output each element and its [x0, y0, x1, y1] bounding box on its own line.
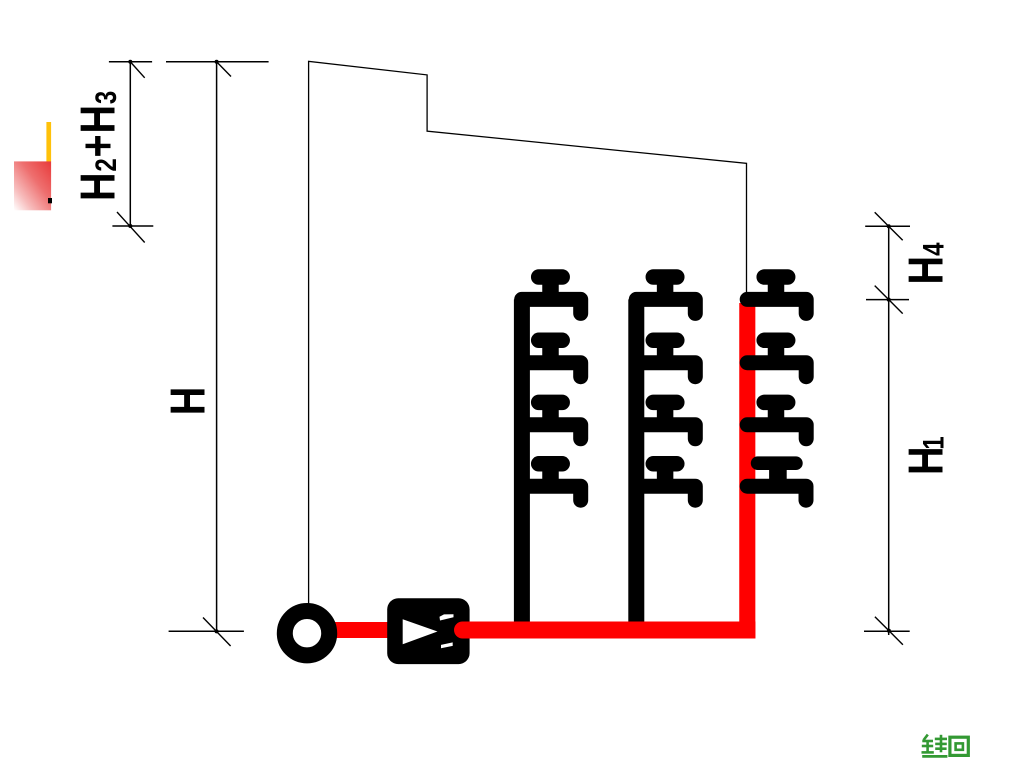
svg-text:H: H [160, 387, 215, 416]
right middle extension line [866, 299, 909, 301]
svg-text:H4: H4 [898, 243, 953, 285]
faucet riser3 floor4 (wide handle) [747, 463, 806, 500]
slide accent yellow bar [46, 122, 51, 162]
slide accent red gradient square [14, 161, 51, 210]
tick between H4 and H1 [875, 286, 903, 314]
faucet riser3 floor2 [747, 340, 806, 376]
check valve right triangle top white edge [440, 614, 454, 620]
top extension line left segment [109, 61, 152, 63]
tick at bottom of H1 dimension [875, 617, 903, 645]
pump circle [285, 611, 329, 655]
red supply main and riser 3 pipe [463, 622, 741, 639]
riser pipe 1 [514, 299, 530, 625]
extension line at bottom of H [169, 630, 244, 632]
slide accent black tick [48, 198, 52, 203]
glyph 回 [950, 737, 968, 755]
faucet riser2 floor4 [636, 464, 695, 500]
svg-text:H2+H3: H2+H3 [70, 90, 125, 201]
faucet riser1 floor4 [522, 464, 581, 500]
faucet riser3 floor3 [747, 402, 806, 438]
svg-text:H1: H1 [898, 436, 953, 475]
right top extension line [865, 225, 910, 227]
building outline [309, 61, 747, 604]
right dimension line H4/H1 [888, 226, 890, 635]
hyperlink text 链回 (green) [922, 735, 969, 757]
faucet riser1 floor2 [522, 340, 581, 376]
dimension line H2+H3 [129, 62, 131, 226]
faucet riser2 floor3 [636, 402, 695, 438]
faucet riser2 floor1 [636, 277, 695, 313]
tick at top of H dimension [217, 62, 231, 77]
tick at top of H4 dimension [875, 212, 903, 240]
faucet riser1 floor1 [522, 277, 581, 313]
faucet riser3 floor1 [747, 277, 806, 313]
riser pipe 2 [628, 299, 644, 625]
tick at bottom of H2+H3 dimension [117, 212, 145, 243]
check valve right triangle bottom white edge [441, 642, 453, 648]
dimension line H [216, 62, 218, 632]
right bottom extension line [864, 630, 910, 632]
red riser 3 vertical pipe [739, 303, 755, 638]
check valve body [387, 598, 469, 664]
red suction pipe stub from pump to valve [331, 622, 390, 638]
glyph 链 [922, 735, 948, 757]
tick at bottom of H dimension [203, 618, 231, 647]
faucet riser2 floor2 [636, 340, 695, 376]
top extension line right segment [166, 61, 269, 63]
check valve left triangle [403, 619, 438, 644]
extension line below H2+H3 [112, 225, 153, 227]
faucet riser1 floor3 [522, 402, 581, 438]
tick at top of H2+H3 dimension [131, 62, 145, 78]
